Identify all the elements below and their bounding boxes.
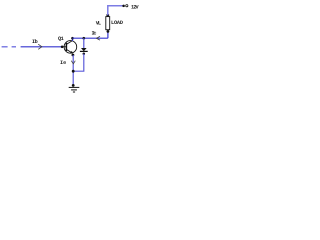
wire base solid xyxy=(21,46,62,48)
node resistor bottom pin dot xyxy=(107,30,110,33)
wire collector xyxy=(72,38,74,41)
wire collector rail xyxy=(73,37,108,39)
ground xyxy=(69,87,80,92)
wire resistor bottom xyxy=(107,31,109,38)
svg-text:VL: VL xyxy=(96,21,101,27)
arrow Ic current xyxy=(96,36,100,40)
arrow Ie current xyxy=(71,61,75,64)
svg-text:12V: 12V xyxy=(131,4,139,10)
wire base dashed segment xyxy=(2,46,16,48)
svg-text:Ib: Ib xyxy=(32,39,38,45)
node emitter pin dot xyxy=(72,54,75,57)
node supply terminal dot xyxy=(122,5,125,8)
svg-text:Ic: Ic xyxy=(92,31,97,37)
resistor LOAD xyxy=(106,17,110,30)
transistor Q1 xyxy=(64,41,77,54)
svg-text:Q1: Q1 xyxy=(58,36,64,42)
node ground dot xyxy=(72,84,75,87)
svg-text:Ie: Ie xyxy=(60,60,66,66)
wire base pin xyxy=(62,46,66,48)
wire supply xyxy=(108,6,123,16)
wire emitter xyxy=(72,55,74,85)
node emitter-diode junction xyxy=(72,70,75,73)
wire diode cathode to emitter xyxy=(73,54,84,71)
arrow Ib current xyxy=(38,44,42,49)
node diode cathode pin dot xyxy=(83,52,86,55)
svg-text:LOAD: LOAD xyxy=(111,20,123,26)
node collector junction xyxy=(71,37,74,40)
node resistor top pin dot xyxy=(106,14,109,17)
node diode top junction xyxy=(83,37,86,40)
terminal 12V open circle xyxy=(126,5,128,7)
diode D1 xyxy=(80,48,88,51)
node base pin dot xyxy=(61,46,64,49)
wire diode anode xyxy=(83,38,85,48)
